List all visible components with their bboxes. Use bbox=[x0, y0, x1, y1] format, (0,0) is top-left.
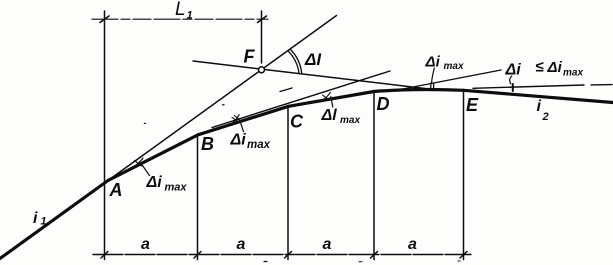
chord A-B (thick) bbox=[108, 135, 198, 181]
tick at x=197.5 bbox=[194, 252, 201, 259]
line i2 extended back through F bbox=[193, 61, 425, 89]
wire vertical extension line above F bbox=[261, 11, 263, 63]
grade line i1 (thick) bbox=[0, 181, 108, 259]
tick at x=463.5 bbox=[460, 252, 467, 259]
svg-text:≤: ≤ bbox=[536, 59, 544, 76]
svg-text:Δi: Δi bbox=[146, 174, 163, 191]
leader at D bbox=[432, 68, 435, 83]
speck left of A arc bbox=[144, 122, 145, 124]
svg-text:1: 1 bbox=[41, 216, 47, 228]
svg-text:i: i bbox=[33, 210, 38, 227]
angle arc at C bbox=[321, 92, 331, 102]
angle arc at B bbox=[231, 115, 240, 125]
leader at B bbox=[240, 121, 244, 132]
svg-text:i: i bbox=[537, 98, 542, 115]
dimension line L1 bbox=[92, 18, 268, 20]
svg-text:E: E bbox=[466, 95, 479, 115]
wire vertical extension line at A bbox=[104, 11, 106, 260]
tick at x=374 bbox=[371, 252, 378, 259]
leader at A bbox=[143, 166, 150, 176]
svg-text:Δi: Δi bbox=[547, 59, 563, 76]
double tick at D bbox=[430, 83, 432, 90]
svg-text:Δi: Δi bbox=[425, 54, 441, 71]
svg-text:ΔI: ΔI bbox=[304, 50, 322, 69]
wire vertical at B bbox=[197, 134, 199, 260]
svg-text:1: 1 bbox=[187, 10, 193, 22]
tangent i1 extended through F bbox=[108, 16, 337, 181]
tick at x=288 bbox=[285, 252, 292, 259]
tick right end of L1 bbox=[258, 16, 267, 23]
svg-text:A: A bbox=[109, 180, 123, 200]
tick at x=104.5 bbox=[101, 252, 108, 259]
chord D-E extended beyond E bbox=[473, 85, 584, 88]
chord B-C extended beyond C bbox=[212, 71, 390, 128]
double tick at B bbox=[232, 117, 238, 121]
svg-text:B: B bbox=[201, 134, 214, 154]
chord C-D (thick) bbox=[289, 92, 375, 107]
node F circle bbox=[259, 67, 265, 73]
svg-text:Δi: Δi bbox=[230, 132, 247, 149]
tick at E bbox=[512, 84, 514, 91]
svg-text:L: L bbox=[175, 0, 186, 20]
svg-text:a: a bbox=[141, 236, 150, 253]
stray dash left of C bbox=[280, 88, 292, 92]
tick left end of L1 bbox=[100, 16, 109, 23]
chord D-E (thick, slight crest) bbox=[374, 89, 464, 91]
chord B-C (thick) bbox=[198, 106, 289, 135]
svg-text:max: max bbox=[444, 61, 464, 72]
leader at E bbox=[510, 76, 512, 84]
grade line i2 (thick) bbox=[464, 90, 613, 102]
angle arc at A bbox=[134, 158, 144, 167]
wire vertical at C bbox=[287, 106, 289, 260]
wire vertical at D bbox=[373, 92, 375, 260]
svg-text:2: 2 bbox=[542, 111, 549, 123]
svg-text:max: max bbox=[340, 115, 360, 126]
speck near B-C chord bbox=[223, 104, 225, 106]
wire vertical at E bbox=[463, 91, 465, 260]
svg-text:Δl: Δl bbox=[321, 107, 338, 124]
svg-text:max: max bbox=[563, 68, 583, 79]
tick across arc at C bbox=[323, 95, 329, 99]
speck below bottom line bbox=[264, 261, 267, 263]
leader at C bbox=[331, 97, 333, 108]
svg-text:D: D bbox=[377, 94, 390, 114]
svg-text:a: a bbox=[408, 236, 417, 253]
chord C-D extended beyond D bbox=[400, 70, 501, 90]
svg-text:max: max bbox=[165, 182, 188, 194]
svg-text:C: C bbox=[290, 112, 304, 132]
svg-text:a: a bbox=[323, 236, 332, 253]
dimension line a (bottom) bbox=[93, 254, 471, 256]
svg-text:F: F bbox=[244, 47, 256, 67]
speck below bottom line bbox=[458, 260, 460, 262]
svg-text:max: max bbox=[247, 139, 271, 151]
svg-text:Δi: Δi bbox=[505, 62, 522, 79]
angle arc dI at F (double) bbox=[291, 50, 302, 74]
svg-text:a: a bbox=[237, 236, 246, 253]
tick across arc at A bbox=[135, 161, 142, 167]
dash continuation of chord D-E extension bbox=[591, 84, 612, 86]
speck below bottom line bbox=[359, 261, 362, 263]
